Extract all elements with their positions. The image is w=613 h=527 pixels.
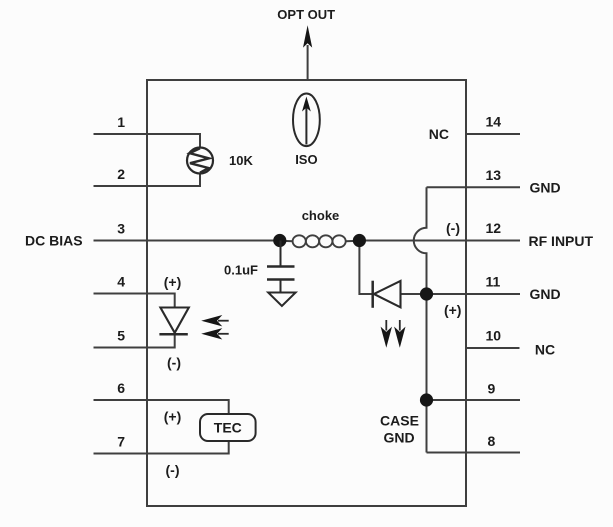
svg-text:CASE: CASE [380,413,419,429]
TEC module [200,414,256,441]
wire case-ground vertical with hop over RF line [414,187,427,452]
wire choke right stub [345,240,359,242]
svg-text:(+): (+) [164,409,182,425]
svg-text:7: 7 [117,434,125,450]
svg-text:14: 14 [486,114,502,130]
svg-text:5: 5 [117,328,125,344]
svg-text:GND: GND [383,430,414,446]
wire pin 14 [466,133,520,135]
svg-text:6: 6 [117,380,125,396]
svg-text:4: 4 [117,274,125,290]
light-out arrow left [381,320,392,348]
svg-text:(-): (-) [166,462,180,478]
svg-text:(-): (-) [167,355,181,371]
svg-text:choke: choke [302,208,340,223]
wire pin 4 [94,294,175,308]
svg-text:NC: NC [535,342,555,358]
light-in arrow lower [201,328,229,339]
wire RF INPUT pin 12 [359,240,520,242]
wire choke left stub [280,240,293,242]
svg-text:(-): (-) [446,220,460,236]
svg-text:8: 8 [488,433,496,449]
svg-text:10K: 10K [229,153,253,168]
svg-text:0.1uF: 0.1uF [224,263,258,278]
monitor diode D2 (pin 11) [373,281,401,308]
thermistor R1 body [187,148,213,174]
wire OPT OUT lead [307,45,309,80]
ground [268,293,295,307]
junction node C (diode anode / pin 11) [420,287,433,300]
isolator ISO [293,94,320,147]
svg-text:(+): (+) [444,302,462,318]
svg-text:2: 2 [117,166,125,182]
wire pin 1 [94,134,201,148]
svg-text:GND: GND [530,286,561,302]
svg-text:RF INPUT: RF INPUT [529,233,594,249]
light-in arrow upper [201,315,229,326]
svg-text:TEC: TEC [214,420,242,436]
wire pin 10 [466,347,520,349]
svg-text:10: 10 [486,328,502,344]
svg-text:3: 3 [117,221,125,237]
svg-text:ISO: ISO [295,152,317,167]
svg-text:(+): (+) [164,274,182,290]
wire pin 8 [427,452,521,454]
svg-text:NC: NC [429,126,449,142]
wire pin 2 [94,173,201,186]
wire pin 11 GND [401,293,521,295]
wire monitor-diode cathode branch [359,241,372,295]
svg-text:1: 1 [117,114,125,130]
svg-text:GND: GND [530,180,561,196]
wire pin 6 [94,400,229,414]
capacitor C1 0.1uF [267,241,295,293]
junction node B (choke/RF) [353,234,366,247]
inductor choke [293,235,346,247]
wire pin 7 [94,441,229,454]
svg-text:11: 11 [486,274,501,290]
svg-text:13: 13 [486,167,502,183]
svg-text:12: 12 [486,220,502,236]
wire pin 5 [94,335,175,348]
wire pin 9 [427,399,521,401]
svg-text:DC BIAS: DC BIAS [25,233,83,249]
package outline [147,80,466,506]
wire pin 13 GND [427,186,521,188]
OPT OUT arrowhead [303,25,312,47]
svg-text:OPT OUT: OPT OUT [277,7,335,22]
wire pin 3 DC BIAS [94,240,281,242]
svg-text:9: 9 [488,381,496,397]
junction node A (bias/cap) [273,234,286,247]
laser diode LD1 (pins 4-5) [159,308,188,335]
junction node D (case gnd / pin 9) [420,393,433,406]
light-out arrow right [394,320,405,348]
